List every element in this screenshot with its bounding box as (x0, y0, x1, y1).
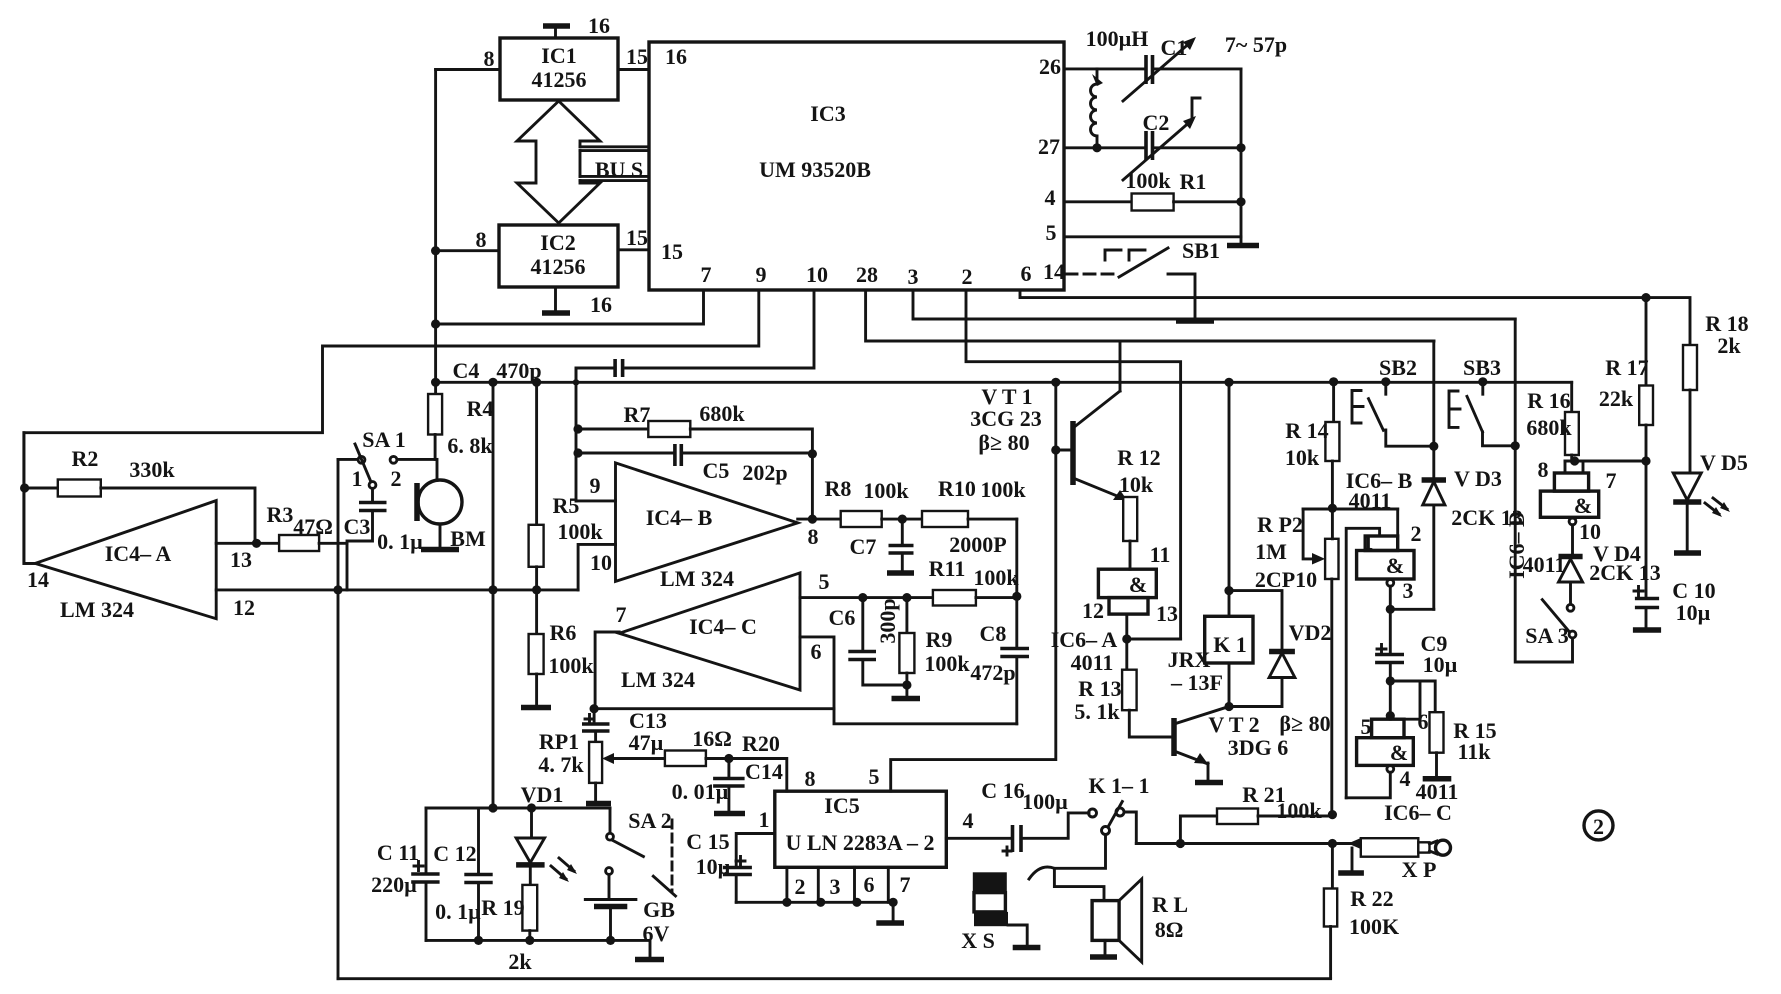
svg-text:15: 15 (661, 239, 683, 264)
pushbutton SB2 (1352, 355, 1438, 451)
svg-text:C 11: C 11 (377, 840, 419, 865)
svg-text:10: 10 (806, 262, 828, 287)
svg-text:7: 7 (616, 602, 627, 627)
inductor 100uH (1086, 26, 1149, 152)
resistor R20 16ohm (623, 726, 787, 791)
svg-text:3: 3 (1403, 578, 1414, 603)
svg-text:3DG 6: 3DG 6 (1228, 735, 1289, 760)
svg-text:VD2: VD2 (1289, 620, 1332, 645)
svg-text:100K: 100K (1349, 914, 1399, 939)
svg-text:3CG 23: 3CG 23 (970, 406, 1042, 431)
resistor R12 10k (1117, 445, 1170, 569)
wire pin14 apex (24, 433, 35, 564)
svg-text:SA 3: SA 3 (1525, 623, 1568, 648)
svg-text:5: 5 (1046, 220, 1057, 245)
wire IC3 pin9 bus to IC4-A (20, 290, 759, 563)
svg-text:47µ: 47µ (629, 730, 664, 755)
IC3 UM93520B (649, 42, 1065, 290)
capacitor C14 0.01u (672, 759, 783, 814)
svg-text:9: 9 (756, 262, 767, 287)
svg-text:8: 8 (484, 46, 495, 71)
power 16 above IC1 (543, 13, 610, 38)
svg-text:16Ω: 16Ω (692, 726, 732, 751)
svg-text:&: & (1574, 493, 1592, 518)
speaker RL 8ohm (1090, 879, 1188, 962)
svg-text:6. 8k: 6. 8k (447, 433, 493, 458)
variable capacitor C2 (1123, 98, 1246, 180)
svg-text:2: 2 (1593, 814, 1604, 839)
svg-text:X S: X S (961, 928, 995, 953)
svg-text:100µH: 100µH (1086, 26, 1149, 51)
wire IC4-C pin5 (800, 593, 933, 602)
capacitor C11 220u (371, 808, 439, 940)
svg-text:UM 93520B: UM 93520B (759, 157, 871, 182)
wire SA3 loop column (1515, 319, 1572, 662)
wire IC3 pin27 (1064, 146, 1146, 149)
switch SA1 (338, 427, 435, 491)
pushbutton SB1 (1105, 238, 1220, 321)
svg-text:0. 1µ: 0. 1µ (377, 529, 423, 554)
svg-text:SA 2: SA 2 (628, 808, 671, 833)
wire column x493 (492, 382, 495, 808)
svg-text:&: & (1390, 740, 1408, 765)
svg-text:27: 27 (1038, 134, 1060, 159)
svg-text:V D3: V D3 (1454, 466, 1502, 491)
potentiometer RP1 4.7k (538, 729, 623, 804)
svg-text:2k: 2k (508, 949, 532, 974)
node C4 rail (431, 377, 1572, 387)
svg-text:4: 4 (1400, 766, 1411, 791)
svg-text:16: 16 (588, 13, 610, 38)
svg-text:12: 12 (1082, 598, 1104, 623)
svg-text:100k: 100k (1125, 168, 1171, 193)
wire IC3 pin7 bus (431, 290, 704, 329)
svg-text:SB3: SB3 (1463, 355, 1501, 380)
svg-text:2k: 2k (1717, 333, 1741, 358)
capacitor C15 10u (686, 829, 752, 902)
svg-text:6: 6 (811, 639, 822, 664)
svg-text:11k: 11k (1457, 739, 1491, 764)
transistor VT1 3CG23 (970, 341, 1127, 500)
svg-text:330k: 330k (129, 457, 175, 482)
svg-text:15: 15 (626, 44, 648, 69)
LED VD5 (1673, 450, 1748, 553)
svg-text:R8: R8 (825, 476, 852, 501)
svg-text:C2: C2 (1143, 110, 1170, 135)
svg-text:JRX: JRX (1168, 647, 1211, 672)
resistor R4 6.8k (428, 383, 493, 459)
node VD1 rail (426, 803, 610, 812)
capacitor C9 10u (1375, 609, 1458, 685)
svg-text:IC4– C: IC4– C (689, 614, 757, 639)
svg-text:RP1: RP1 (539, 729, 579, 754)
capacitor C6 300p (829, 598, 907, 685)
capacitor C13 47u (582, 708, 667, 755)
svg-text:14: 14 (27, 567, 49, 592)
svg-text:IC6– A: IC6– A (1051, 627, 1118, 652)
svg-text:4: 4 (963, 808, 974, 833)
switch SA3 (1525, 600, 1576, 648)
svg-text:R1: R1 (1180, 169, 1207, 194)
svg-text:7: 7 (1606, 468, 1617, 493)
svg-text:C 16: C 16 (981, 778, 1024, 803)
wire IC3 pin2 bus (966, 290, 1181, 639)
svg-text:47Ω: 47Ω (293, 514, 333, 539)
svg-text:680k: 680k (1526, 415, 1572, 440)
svg-text:11: 11 (1150, 542, 1171, 567)
capacitor C7 2000P (850, 519, 1007, 573)
svg-text:8: 8 (476, 227, 487, 252)
svg-text:R 14: R 14 (1285, 418, 1328, 443)
wire bottom border (338, 977, 1331, 980)
svg-text:3: 3 (908, 264, 919, 289)
capacitor C3 0.1u (344, 488, 424, 590)
svg-text:6: 6 (864, 872, 875, 897)
svg-text:V T 2: V T 2 (1208, 712, 1259, 737)
svg-text:C4: C4 (453, 358, 480, 383)
svg-text:100k: 100k (863, 478, 909, 503)
IC2 41256 (499, 225, 618, 287)
svg-text:2: 2 (1411, 521, 1422, 546)
svg-text:C6: C6 (829, 605, 856, 630)
svg-text:R7: R7 (624, 402, 651, 427)
svg-text:X P: X P (1402, 857, 1437, 882)
svg-text:100k: 100k (548, 653, 594, 678)
resistor R5 100k (529, 382, 604, 590)
resistor R9 100k (892, 598, 971, 699)
microphone BM (417, 459, 486, 551)
svg-text:R9: R9 (926, 627, 953, 652)
svg-text:15: 15 (626, 225, 648, 250)
wire IC4-A pin12 rail (216, 585, 578, 594)
svg-text:100k: 100k (924, 651, 970, 676)
wire IC3 pin6 bus (1020, 290, 1690, 345)
svg-text:β≥ 80: β≥ 80 (1279, 711, 1330, 736)
svg-text:R4: R4 (467, 396, 494, 421)
svg-text:C14: C14 (745, 759, 783, 784)
capacitor C4 470p (453, 358, 623, 383)
svg-text:14: 14 (1043, 259, 1065, 284)
svg-text:680k: 680k (699, 401, 745, 426)
svg-text:C8: C8 (980, 621, 1007, 646)
variable capacitor C1 (1123, 32, 1287, 101)
right rail with ground (1227, 69, 1259, 246)
resistor R8 100k (825, 476, 922, 527)
svg-text:LM 324: LM 324 (621, 667, 695, 692)
pushbutton SB3 (1449, 355, 1520, 450)
svg-text:R P2: R P2 (1257, 512, 1303, 537)
svg-text:4: 4 (1045, 185, 1056, 210)
resistor R16 680k (1526, 382, 1578, 461)
node line 461 (1565, 456, 1651, 465)
BUS bidirectional arrow (517, 101, 649, 223)
svg-text:R 13: R 13 (1078, 676, 1121, 701)
svg-text:100k: 100k (980, 477, 1026, 502)
svg-text:5: 5 (819, 569, 830, 594)
svg-text:IC5: IC5 (824, 793, 859, 818)
svg-text:GB: GB (643, 897, 675, 922)
wire node to XP (1136, 839, 1361, 848)
svg-text:1: 1 (352, 466, 363, 491)
wire IC4-B pin8 output (798, 515, 841, 524)
svg-text:IC3: IC3 (810, 101, 845, 126)
wire IC3 pin10 to C4 branch (626, 290, 814, 368)
wire IC1 pin 8 (436, 46, 500, 71)
svg-text:C 12: C 12 (433, 841, 476, 866)
IC5 bottom pin tabs 2 3 6 7 (736, 867, 910, 923)
node rail 708 (590, 704, 835, 713)
node x576 column pin9 (573, 368, 615, 501)
resistor R11 100k (929, 556, 1020, 606)
NAND gate IC6-B 4011 (1346, 509, 1434, 798)
svg-text:8Ω: 8Ω (1155, 917, 1184, 942)
svg-text:2CP10: 2CP10 (1255, 567, 1317, 592)
resistor R18 2k (1683, 311, 1749, 473)
svg-text:U LN 2283A – 2: U LN 2283A – 2 (785, 830, 934, 855)
left rail from IC1 pin8 down (434, 70, 437, 384)
svg-text:41256: 41256 (532, 67, 587, 92)
svg-text:5: 5 (869, 764, 880, 789)
svg-text:1: 1 (1363, 529, 1374, 554)
diode VD4 2CK13 (1523, 525, 1661, 611)
resistor R19 2k (481, 885, 537, 974)
svg-text:1: 1 (759, 807, 770, 832)
svg-text:SA 1: SA 1 (362, 427, 405, 452)
svg-text:K 1– 1: K 1– 1 (1088, 773, 1149, 798)
wire K1-1 to speaker (1029, 835, 1106, 901)
svg-text:5. 1k: 5. 1k (1074, 699, 1120, 724)
resistor R22 100K (1324, 844, 1399, 978)
svg-text:300p: 300p (875, 598, 900, 643)
svg-text:100k: 100k (557, 519, 603, 544)
svg-text:4. 7k: 4. 7k (538, 752, 584, 777)
page number 2 circled (1584, 811, 1613, 840)
svg-text:2: 2 (962, 264, 973, 289)
svg-text:0. 01µ: 0. 01µ (672, 779, 729, 804)
svg-text:9: 9 (590, 473, 601, 498)
svg-text:10k: 10k (1119, 472, 1154, 497)
svg-text:R6: R6 (550, 620, 577, 645)
resistor R7 680k (578, 401, 812, 519)
resistor R14 10k (1285, 382, 1340, 513)
svg-text:IC1: IC1 (541, 43, 576, 68)
svg-text:10: 10 (590, 550, 612, 575)
battery GB 6V (585, 875, 675, 947)
svg-text:R10: R10 (938, 476, 976, 501)
potentiometer RP2 1M (1255, 509, 1398, 812)
svg-text:– 13F: – 13F (1170, 670, 1223, 695)
resistor R10 100k (898, 476, 1027, 527)
svg-text:2CK 13: 2CK 13 (1589, 560, 1661, 585)
svg-text:13: 13 (1156, 601, 1178, 626)
svg-text:LM 324: LM 324 (660, 566, 734, 591)
resistor R2 330k (25, 446, 255, 543)
transistor VT2 3DG6 (1174, 707, 1331, 783)
svg-text:VD1: VD1 (521, 782, 564, 807)
svg-text:4011: 4011 (1523, 552, 1566, 577)
svg-text:4011: 4011 (1071, 650, 1114, 675)
svg-text:β≥ 80: β≥ 80 (978, 430, 1029, 455)
svg-text:R2: R2 (72, 446, 99, 471)
resistor R3 47ohm (267, 502, 347, 551)
left vertical rail to bottom (337, 459, 340, 978)
svg-text:1M: 1M (1255, 539, 1287, 564)
svg-text:R 22: R 22 (1350, 886, 1393, 911)
svg-text:R 17: R 17 (1605, 355, 1648, 380)
relay contact K1-1 (1088, 773, 1149, 844)
resistor R1 100k (1064, 168, 1246, 211)
resistor R13 5.1k (1074, 639, 1172, 737)
svg-text:R L: R L (1152, 892, 1188, 917)
wire IC3 pin28 bus (866, 290, 1434, 341)
svg-text:100k: 100k (1276, 798, 1322, 823)
svg-text:R 12: R 12 (1117, 445, 1160, 470)
diode VD2 2CP10 (1229, 591, 1331, 707)
svg-text:472p: 472p (970, 660, 1015, 685)
svg-text:SB2: SB2 (1379, 355, 1417, 380)
svg-text:2: 2 (391, 466, 402, 491)
svg-text:IC2: IC2 (540, 230, 575, 255)
svg-text:3: 3 (830, 874, 841, 899)
capacitor C8 472p (970, 519, 1029, 724)
svg-text:10µ: 10µ (1676, 600, 1711, 625)
svg-text:2: 2 (795, 874, 806, 899)
svg-text:22k: 22k (1599, 386, 1634, 411)
NAND gate IC6-A 4011 (1051, 569, 1181, 675)
wire IC4-A pin13 (216, 539, 279, 548)
svg-text:IC4– B: IC4– B (646, 505, 713, 530)
wire IC2 pin 15 to IC3 (618, 225, 649, 250)
svg-text:7~ 57p: 7~ 57p (1225, 32, 1287, 57)
plug XP (1338, 838, 1450, 882)
svg-text:IC4– A: IC4– A (105, 541, 172, 566)
svg-text:R11: R11 (929, 556, 966, 581)
svg-text:C3: C3 (344, 514, 371, 539)
svg-text:SB1: SB1 (1182, 238, 1220, 263)
svg-text:8: 8 (805, 766, 816, 791)
svg-text:220µ: 220µ (371, 872, 417, 897)
node bottom rail with ground (426, 936, 664, 960)
wire IC3 pin5 (1064, 235, 1241, 238)
wire IC3 pin14 dashed (1066, 273, 1117, 276)
diode VD3 2CK13 (1346, 341, 1523, 609)
power 16 below IC2 (542, 287, 612, 317)
capacitor C10 10u (1633, 461, 1716, 630)
svg-text:13: 13 (230, 547, 252, 572)
svg-text:5: 5 (1361, 714, 1372, 739)
svg-text:0. 1µ: 0. 1µ (435, 899, 481, 924)
svg-text:R 16: R 16 (1527, 388, 1570, 413)
svg-text:8: 8 (1538, 457, 1549, 482)
svg-text:&: & (1386, 553, 1404, 578)
LED VD1 (516, 782, 577, 885)
relay coil K1 JRX-13F (1168, 382, 1253, 711)
resistor R6 100k (521, 590, 594, 708)
svg-text:6: 6 (1021, 261, 1032, 286)
op-amp IC4-B LM324 (590, 463, 819, 591)
svg-text:16: 16 (665, 44, 687, 69)
resistor R15 11k (1390, 681, 1496, 779)
svg-text:8: 8 (808, 524, 819, 549)
wire IC3 pin3 bus (913, 290, 1515, 319)
NAND gate IC6-D 4011 (1504, 457, 1617, 579)
switch SA2 (606, 808, 676, 896)
resistor R17 22k (1599, 298, 1653, 461)
capacitor C12 0.1u (433, 808, 492, 940)
op-amp IC4-A LM324 (27, 501, 255, 622)
IC1 41256 (500, 38, 618, 100)
svg-text:12: 12 (233, 595, 255, 620)
svg-text:10µ: 10µ (1423, 652, 1458, 677)
node x1056 column (891, 382, 1061, 791)
capacitor C5 202p (578, 444, 817, 485)
svg-text:100µ: 100µ (1022, 789, 1068, 814)
svg-text:2000P: 2000P (949, 532, 1006, 557)
wire IC2 pin 8 (431, 227, 499, 255)
capacitor C16 100u (946, 778, 1089, 855)
svg-text:IC6– C: IC6– C (1384, 800, 1452, 825)
svg-text:R20: R20 (742, 731, 780, 756)
svg-text:6V: 6V (643, 921, 670, 946)
svg-text:16: 16 (590, 292, 612, 317)
svg-text:41256: 41256 (531, 254, 586, 279)
NAND gate IC6-C 4011 (1346, 681, 1458, 825)
wire IC4-C pin6 (800, 637, 1017, 724)
wire IC4-C pin7 output (595, 632, 619, 709)
svg-text:BU S: BU S (595, 157, 643, 182)
svg-text:10k: 10k (1285, 445, 1320, 470)
svg-text:7: 7 (900, 872, 911, 897)
wire IC5 pin1 (736, 834, 775, 867)
svg-text:C1: C1 (1161, 35, 1188, 60)
svg-text:28: 28 (856, 262, 878, 287)
wire IC3 pin26 (1064, 67, 1145, 70)
resistor R21 100k (1180, 782, 1337, 844)
svg-text:LM 324: LM 324 (60, 597, 134, 622)
svg-text:R3: R3 (267, 502, 294, 527)
svg-text:202p: 202p (742, 460, 787, 485)
svg-text:R 19: R 19 (481, 895, 524, 920)
wire IC1 pin 15 to IC3 (618, 44, 649, 70)
svg-text:C5: C5 (703, 458, 730, 483)
svg-text:BM: BM (450, 526, 486, 551)
IC5 ULN2283A-2 (759, 764, 974, 867)
svg-text:26: 26 (1039, 54, 1061, 79)
svg-text:7: 7 (701, 262, 712, 287)
svg-text:K 1: K 1 (1213, 632, 1247, 657)
svg-text:10µ: 10µ (696, 854, 731, 879)
svg-text:100k: 100k (973, 565, 1019, 590)
svg-text:C7: C7 (850, 534, 877, 559)
connector XS (961, 872, 1040, 953)
svg-text:&: & (1129, 572, 1147, 597)
svg-text:V D5: V D5 (1700, 450, 1748, 475)
wire IC4-B pin10 elbow (578, 544, 615, 590)
svg-text:C 15: C 15 (686, 829, 729, 854)
op-amp IC4-C LM324 (616, 569, 830, 692)
